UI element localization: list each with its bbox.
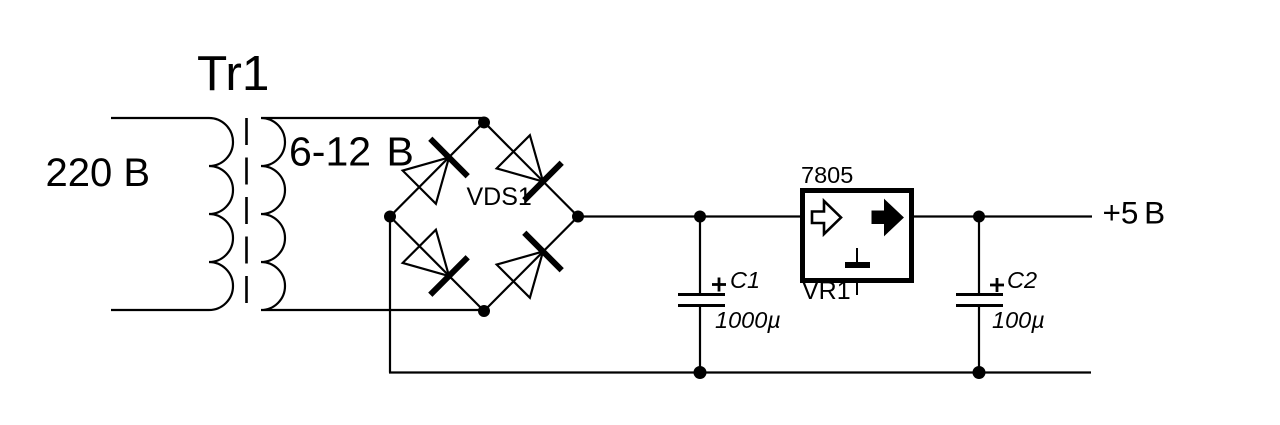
svg-text:6-12 B: 6-12 B (289, 129, 414, 175)
svg-text:1000µ: 1000µ (715, 307, 781, 333)
svg-text:Tr1: Tr1 (197, 46, 269, 101)
svg-text:VDS1: VDS1 (467, 183, 532, 211)
svg-text:C2: C2 (1007, 267, 1037, 293)
svg-text:7805: 7805 (801, 162, 853, 188)
svg-text:+5 B: +5 B (1103, 195, 1166, 231)
svg-text:220 B: 220 B (46, 151, 151, 195)
svg-text:100µ: 100µ (992, 307, 1045, 333)
svg-text:C1: C1 (730, 267, 760, 293)
svg-text:VR1: VR1 (802, 277, 851, 305)
